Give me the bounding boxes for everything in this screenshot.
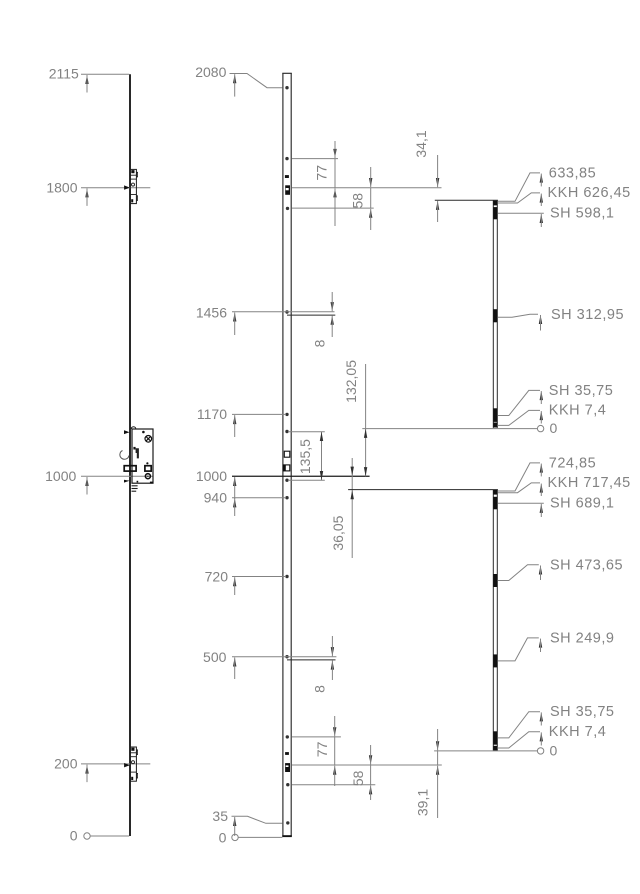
lower keeper top line [348, 489, 498, 491]
leader SH 35,75 upper [498, 390, 541, 415]
leader 2080 [230, 74, 283, 88]
svg-text:39,1: 39,1 [414, 789, 430, 816]
svg-text:0: 0 [70, 828, 78, 844]
svg-text:1800: 1800 [46, 179, 77, 195]
upper keeper hook SH 35,75 [493, 408, 497, 422]
arrow 1456 [233, 312, 236, 321]
svg-text:KKH 626,45: KKH 626,45 [548, 185, 631, 201]
upper keeper left bar [492, 200, 494, 428]
dim 132,05 line and arrows [365, 364, 367, 476]
svg-text:132,05: 132,05 [343, 360, 359, 403]
arrow 940 [233, 498, 236, 507]
ref stub from hole 992 [288, 479, 325, 481]
dim line 2115 [81, 73, 129, 75]
rail 2 left edge [282, 73, 284, 836]
dim line 1800 [81, 187, 150, 189]
dim 8 bottom arrows and line [331, 647, 334, 656]
svg-text:SH 598,1: SH 598,1 [550, 206, 614, 222]
svg-text:500: 500 [203, 649, 227, 665]
svg-text:2080: 2080 [195, 64, 226, 80]
dim 77 bottom arrows and line [333, 727, 336, 736]
leader KKH 7,4 upper [497, 410, 540, 425]
datum circle 0 rail2 [232, 834, 238, 840]
upper keeper KKH bottom block [493, 423, 497, 428]
hook cam mark lower (KKH 200) [285, 763, 290, 772]
ref line hole below top latch [292, 207, 374, 209]
svg-text:200: 200 [54, 755, 78, 771]
lower keeper hook SH 249,9 [493, 654, 497, 667]
dim line 1170 [232, 413, 286, 415]
dim line 1000 (left) [81, 475, 153, 477]
svg-text:1170: 1170 [197, 406, 227, 422]
small square mark upper [285, 175, 289, 178]
lower keeper hook SH 35,75 [493, 731, 497, 744]
dim line 940 [232, 497, 286, 499]
arrow SH 598,1 [540, 214, 543, 223]
svg-text:SH 35,75: SH 35,75 [550, 704, 614, 720]
rail 2 screw holes [285, 86, 288, 89]
upper keeper right bar [496, 200, 498, 428]
svg-text:8: 8 [312, 685, 328, 693]
datum circle 0 upper keeper [537, 425, 543, 431]
svg-text:34,1: 34,1 [413, 130, 429, 157]
svg-text:0: 0 [219, 830, 227, 846]
svg-text:0: 0 [550, 743, 558, 759]
svg-text:35: 35 [212, 808, 228, 824]
arrow SH 473,65 [539, 565, 542, 574]
arrow 724,85 [540, 463, 543, 472]
svg-text:0: 0 [550, 420, 558, 436]
dim line 500 [232, 656, 336, 658]
roller cam latch at 1800 [124, 169, 137, 203]
leader SH 473,65 [498, 565, 539, 581]
arrow 35 [233, 817, 236, 826]
svg-text:1000: 1000 [196, 468, 227, 484]
follower square on rail2 [284, 451, 290, 457]
svg-text:SH 689,1: SH 689,1 [550, 496, 614, 512]
svg-text:135,5: 135,5 [297, 439, 313, 474]
lower keeper KKH bottom block [493, 746, 497, 751]
svg-text:2115: 2115 [49, 66, 79, 82]
leader SH 598,1 [498, 212, 544, 214]
dim 77 top: arrows and line [333, 149, 336, 158]
datum circle 0 left [84, 833, 90, 839]
lower keeper KKH top block [493, 490, 497, 495]
leader SH 249,9 [498, 638, 539, 661]
dim 39,1 arrows and line [436, 741, 439, 750]
leader 724,85 [498, 463, 540, 491]
dim 34,1: arrows and line [436, 178, 439, 187]
roller cam latch at 200 [124, 747, 137, 781]
rail 2 top cap [282, 72, 292, 74]
svg-text:KKH 7,4: KKH 7,4 [549, 724, 607, 740]
ref line KKH top latch [292, 187, 442, 189]
dim 36,05 line and arrows [351, 458, 353, 558]
leader KKH 717,45 [498, 483, 541, 493]
cylinder hole on rail2 [283, 465, 290, 471]
arrow 1800 [85, 188, 88, 197]
arrow KKH 717,45 [540, 483, 543, 492]
lower keeper hook SH 473,65 [493, 574, 497, 587]
arrow 500 [233, 657, 236, 666]
svg-text:77: 77 [314, 741, 330, 757]
svg-text:1456: 1456 [196, 304, 227, 320]
arrow SH 35,75 upper [540, 391, 543, 400]
dim line 1456 [232, 311, 335, 313]
arrow 200 [85, 764, 88, 773]
rail 2 bottom cap [282, 835, 292, 837]
dim line 720 [232, 576, 286, 578]
svg-text:8: 8 [311, 339, 327, 347]
svg-text:SH 249,9: SH 249,9 [550, 630, 614, 646]
hook cam mark upper (KKH 1800) [285, 185, 290, 195]
svg-text:SH 312,95: SH 312,95 [551, 307, 624, 323]
svg-text:SH 35,75: SH 35,75 [549, 383, 613, 399]
svg-text:720: 720 [205, 569, 229, 585]
small square mark lower [285, 752, 289, 755]
svg-text:724,85: 724,85 [549, 455, 596, 471]
upper keeper top line [435, 199, 498, 201]
leader KKH 626,45 [498, 193, 541, 203]
dim 8 top: arrows and line [331, 302, 334, 311]
svg-text:KKH 7,4: KKH 7,4 [549, 403, 607, 419]
ref line KKH bottom latch [292, 764, 442, 766]
lower keeper baseline 0 [434, 750, 537, 752]
arrow SH 249,9 [539, 638, 542, 647]
arrow KKH 7,4 lower [540, 732, 543, 741]
dim line 1000 black [232, 475, 370, 477]
ref stub from hole 1128 [288, 431, 325, 433]
svg-text:633,85: 633,85 [549, 165, 596, 181]
dim 58 top: arrows and line [369, 178, 372, 187]
datum circle 0 lower keeper [537, 748, 543, 754]
arrow SH 312,95 [539, 315, 542, 324]
svg-text:940: 940 [204, 489, 228, 505]
part edge line 8mm below 1456 [287, 314, 335, 316]
upper keeper hook SH 598,1 [493, 207, 497, 219]
leader 633,85 [498, 173, 540, 201]
arrow 2080 [233, 74, 236, 83]
svg-text:KKH 717,45: KKH 717,45 [548, 475, 631, 491]
dim line 0 left [90, 835, 129, 837]
arrow 1170 [233, 415, 236, 424]
svg-text:58: 58 [349, 193, 365, 209]
leader SH 35,75 lower [498, 712, 541, 738]
ref line hole 58 bottom [292, 784, 376, 786]
dim 58 bottom arrows and line [369, 755, 372, 764]
arrow SH 689,1 [540, 504, 543, 513]
arrow 2115 [85, 75, 88, 84]
ref line hole 1456+? top (77 upper bound) [292, 158, 338, 160]
arrow 633,85 [540, 173, 543, 182]
arrow KKH 7,4 upper [540, 411, 543, 420]
dim line 0 rail2 [238, 836, 282, 838]
ref line hole 77 bottom [292, 736, 341, 738]
lower keeper hook SH 689,1 [493, 497, 497, 510]
rail 2 right edge [290, 73, 292, 836]
left rail (faceplate edge) [129, 74, 131, 836]
upper keeper KKH top block [493, 201, 497, 206]
leader 35 [232, 816, 283, 823]
leader SH 689,1 [498, 502, 544, 504]
arrow SH 35,75 lower [540, 712, 543, 721]
svg-text:1000: 1000 [45, 468, 76, 484]
leader KKH 7,4 lower [497, 732, 540, 748]
svg-text:77: 77 [314, 165, 330, 181]
svg-text:58: 58 [350, 770, 366, 786]
dim line 200 [81, 763, 150, 765]
lower keeper right bar [496, 490, 498, 751]
svg-text:SH 473,65: SH 473,65 [550, 557, 623, 573]
dim 135,5 line and arrows [321, 432, 323, 480]
arrow 1000 left [85, 477, 88, 486]
lock case at 1000 [120, 427, 153, 492]
lower keeper left bar [492, 490, 494, 751]
svg-text:36,05: 36,05 [330, 515, 346, 550]
arrow 720 [233, 577, 236, 586]
arrow KKH 626,45 [540, 193, 543, 202]
upper keeper hook SH 312,95 [493, 309, 497, 322]
part edge line 8mm below 500 [287, 659, 336, 661]
arrow 1000 rail2 [233, 477, 236, 486]
leader SH 312,95 [498, 314, 539, 317]
upper keeper baseline 0 [362, 428, 537, 430]
